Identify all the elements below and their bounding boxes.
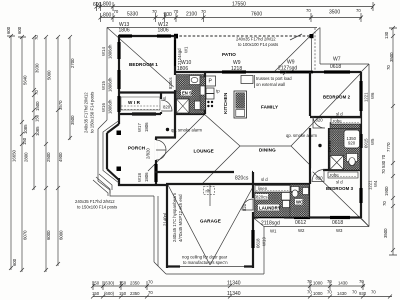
wc basin <box>303 188 309 195</box>
svg-text:70: 70 <box>306 8 311 13</box>
svg-text:70: 70 <box>307 290 312 295</box>
svg-text:3930: 3930 <box>35 63 40 73</box>
lounge hip diagonal <box>148 114 205 171</box>
svg-text:1085: 1085 <box>23 124 28 134</box>
eave porch north chamfer <box>98 120 107 129</box>
ensuite vanity line <box>193 100 204 102</box>
bottom ticks B <box>91 295 392 299</box>
svg-text:0915: 0915 <box>364 138 369 148</box>
wall main north <box>175 71 361 73</box>
svg-text:W19: W19 <box>262 237 267 246</box>
garage-house door arc <box>242 199 253 210</box>
label 820cs laundry <box>256 194 269 200</box>
svg-text:900: 900 <box>164 12 173 18</box>
svg-text:GARAGE: GARAGE <box>200 219 221 224</box>
svg-text:sl d: sl d <box>261 177 268 182</box>
svg-text:linen: linen <box>258 186 268 191</box>
garage door gap <box>180 265 244 269</box>
garage ridge stub <box>209 185 211 206</box>
window W13 bar <box>119 34 132 37</box>
hip SE corner connector <box>361 218 369 227</box>
svg-text:820: 820 <box>316 118 324 123</box>
wall bedroom1 north <box>118 35 175 37</box>
porch step line 2 <box>96 177 110 194</box>
tick <box>95 2 376 11</box>
island dishwasher <box>236 110 245 117</box>
svg-text:2140pl: 2140pl <box>163 213 168 226</box>
svg-text:W I R: W I R <box>128 100 141 105</box>
window W15 bar <box>117 70 120 89</box>
wc toilet <box>291 187 299 198</box>
patio hip diagonal <box>274 35 311 72</box>
garage diagonal right <box>210 185 254 265</box>
svg-text:2124sgd: 2124sgd <box>177 48 182 65</box>
porch step line 1 <box>99 174 112 190</box>
WIR shelves dashed <box>121 106 160 110</box>
porch wall chamfer south <box>107 169 119 180</box>
sgd 2118 bar <box>258 216 284 218</box>
svg-text:820: 820 <box>242 203 247 211</box>
entry double door arcs <box>156 140 166 160</box>
svg-text:150: 150 <box>92 281 100 286</box>
window W19 bar <box>251 230 254 248</box>
oven box 1 <box>206 88 214 94</box>
svg-text:11340: 11340 <box>227 291 241 297</box>
porch step line 3 <box>93 180 108 196</box>
hip garage notch connector <box>253 218 264 227</box>
window W12 bar <box>157 34 171 37</box>
wall entry south <box>118 184 167 186</box>
bed2 robe shelf <box>331 118 361 124</box>
ensuite door swing <box>175 90 183 96</box>
svg-text:WC: WC <box>296 200 303 205</box>
wall garage north <box>166 183 254 185</box>
dim line second row <box>101 17 363 19</box>
note leader patio <box>290 34 302 40</box>
svg-text:5000: 5000 <box>47 70 52 80</box>
svg-text:1806dh: 1806dh <box>108 77 113 92</box>
svg-text:820: 820 <box>316 176 324 181</box>
dim line L6 partial <box>69 37 71 140</box>
wall bed2 south <box>310 116 361 118</box>
hip to bed3 corner <box>291 146 310 165</box>
pantry box <box>206 76 216 86</box>
label EN S <box>181 90 192 96</box>
svg-text:1806: 1806 <box>119 28 130 34</box>
svg-text:to manufacturers spec'n: to manufacturers spec'n <box>183 260 228 265</box>
patio east dashed line <box>314 28 316 72</box>
svg-text:1430: 1430 <box>337 291 347 296</box>
svg-text:3500: 3500 <box>389 52 394 62</box>
svg-text:150: 150 <box>35 114 40 122</box>
svg-text:3500: 3500 <box>383 228 388 238</box>
left ticks mid <box>20 88 72 190</box>
wall WIR south <box>119 113 161 115</box>
svg-text:150: 150 <box>22 137 27 145</box>
wall entry east (W18 wall) <box>155 138 157 187</box>
svg-text:BEDROOM 1: BEDROOM 1 <box>129 62 158 67</box>
fridge <box>241 76 253 84</box>
wall laundry north <box>253 183 310 185</box>
bedroom3 diagonal <box>310 169 369 227</box>
smoke alarm dot family <box>318 144 321 147</box>
svg-text:7770: 7770 <box>386 142 391 152</box>
svg-text:sl d: sl d <box>336 112 343 117</box>
svg-text:1806dh: 1806dh <box>108 44 113 59</box>
svg-text:70: 70 <box>371 290 376 295</box>
svg-text:70: 70 <box>34 90 39 95</box>
wall bed3 north <box>310 169 361 171</box>
svg-text:800: 800 <box>103 13 112 19</box>
eave patio east edge <box>319 28 321 65</box>
svg-text:4900: 4900 <box>58 152 63 162</box>
svg-text:70 530 70: 70 530 70 <box>381 154 386 174</box>
svg-text:70: 70 <box>152 9 157 14</box>
cooktop burners <box>207 101 213 107</box>
note leader trusses <box>283 72 286 75</box>
svg-text:1000: 1000 <box>313 291 323 296</box>
svg-text:BEDROOM 2: BEDROOM 2 <box>323 95 351 100</box>
svg-text:1221: 1221 <box>368 180 373 190</box>
svg-text:70: 70 <box>352 290 357 295</box>
svg-text:to 150x150 F14 posts: to 150x150 F14 posts <box>90 92 95 133</box>
svg-text:2700: 2700 <box>70 58 75 68</box>
svg-text:5330: 5330 <box>127 12 138 18</box>
laundry washer <box>283 201 290 208</box>
wc tiled floor <box>290 185 309 218</box>
svg-text:1806: 1806 <box>158 28 169 34</box>
wall ensuite/kitchen divider <box>204 72 206 114</box>
svg-text:(630): (630) <box>104 281 115 286</box>
wall east exterior <box>360 72 362 218</box>
bed3 robe shelf <box>328 172 358 178</box>
patio post 1 <box>174 34 178 39</box>
svg-text:BATH: BATH <box>327 141 332 152</box>
svg-text:2100: 2100 <box>186 12 197 18</box>
WIR-ensuite door arc <box>161 100 172 111</box>
hip to garage corner <box>202 146 240 184</box>
svg-text:70: 70 <box>114 9 119 14</box>
wall garage south <box>167 265 254 267</box>
porch beam inner line <box>103 121 119 184</box>
dim line L1 <box>10 36 12 270</box>
svg-text:2127sgd: 2127sgd <box>278 65 297 71</box>
svg-text:70: 70 <box>386 65 391 70</box>
window W5 bar <box>359 134 362 148</box>
svg-text:3500: 3500 <box>70 115 75 125</box>
ensuite shower <box>177 99 190 113</box>
wall bed2 west <box>309 72 311 116</box>
wall garage west <box>166 184 168 268</box>
garage diagonal left <box>168 185 210 265</box>
svg-text:16650: 16650 <box>12 149 17 162</box>
sgd 2124 gap in bed1 east wall <box>174 40 177 66</box>
svg-text:1085: 1085 <box>35 126 40 136</box>
svg-text:1218: 1218 <box>231 66 242 72</box>
svg-text:5640: 5640 <box>23 75 28 85</box>
svg-text:1806: 1806 <box>144 172 149 182</box>
svg-text:FAMILY: FAMILY <box>261 105 278 110</box>
entry door gap <box>155 140 158 160</box>
eave south edge right <box>264 226 369 228</box>
bath tub <box>344 130 360 148</box>
svg-text:1806dh: 1806dh <box>108 99 113 114</box>
window W17 bar (WIR south wall) <box>132 112 156 115</box>
svg-text:W16: W16 <box>101 103 106 112</box>
bath wc <box>347 154 358 166</box>
kitchen island outline <box>234 91 247 118</box>
left ticks top <box>7 34 72 39</box>
window W4 bar <box>359 188 362 203</box>
wall hall west (bath) <box>309 128 311 184</box>
svg-text:BEDROOM 3: BEDROOM 3 <box>326 186 354 191</box>
window 0612 bar <box>294 216 310 219</box>
svg-text:rlh: rlh <box>206 188 211 193</box>
window W9 1218 bar <box>222 70 246 73</box>
bed3 door arc <box>312 170 324 182</box>
svg-text:W4: W4 <box>373 180 378 187</box>
svg-text:920: 920 <box>348 141 356 146</box>
svg-text:1221: 1221 <box>364 92 369 102</box>
svg-text:70: 70 <box>327 290 332 295</box>
window W16 bar <box>117 96 120 112</box>
svg-text:sl: sl <box>163 96 166 101</box>
svg-text:to 100x100 F14 posts: to 100x100 F14 posts <box>238 42 278 47</box>
bed2 door arc <box>313 116 325 128</box>
svg-text:600: 600 <box>93 2 102 8</box>
svg-text:1900: 1900 <box>384 186 389 196</box>
svg-text:(600): (600) <box>104 291 115 296</box>
wall west (left exterior) <box>118 36 120 124</box>
svg-text:930: 930 <box>359 291 367 296</box>
eave NE segment <box>320 63 369 65</box>
right ticks <box>389 26 397 255</box>
dim line L5 <box>57 37 59 266</box>
smoke alarm dot lounge <box>166 128 169 131</box>
wall west lower <box>118 178 120 186</box>
window W18 bar <box>154 164 157 182</box>
svg-text:1806: 1806 <box>177 66 188 72</box>
kitchen bench hatch strip <box>200 77 206 110</box>
sgd 2124 bar <box>174 40 176 66</box>
hip NW long diagonal through bedroom1 and dining <box>107 28 240 147</box>
dim line bottom B <box>93 296 392 298</box>
ticks row2 <box>99 13 364 22</box>
svg-text:0612: 0612 <box>295 220 306 226</box>
laundry tiled floor <box>254 193 290 218</box>
svg-text:EN S: EN S <box>182 91 192 96</box>
svg-text:0618: 0618 <box>332 220 343 226</box>
svg-text:70: 70 <box>148 280 153 285</box>
window W7 0618 bar <box>324 70 350 73</box>
svg-text:0618: 0618 <box>256 238 261 248</box>
svg-text:150: 150 <box>119 281 127 286</box>
svg-text:KITCHEN: KITCHEN <box>223 92 229 114</box>
dim line right <box>392 28 394 255</box>
svg-text:W15: W15 <box>101 81 106 90</box>
svg-text:W3: W3 <box>336 228 343 233</box>
svg-text:6000: 6000 <box>46 230 51 240</box>
wall WIR east <box>160 93 162 115</box>
svg-text:820cs: 820cs <box>168 78 173 89</box>
svg-text:1430: 1430 <box>338 281 348 286</box>
svg-text:70: 70 <box>34 35 39 40</box>
ceiling ridge line <box>240 145 291 147</box>
hip NE corner connector <box>361 64 369 72</box>
wall bath west <box>328 128 330 170</box>
laundry tub <box>282 193 291 201</box>
svg-text:LAUNDRY: LAUNDRY <box>259 206 281 211</box>
eave garage east edge <box>263 227 265 275</box>
wall bed1 east / ensuite west <box>174 36 176 138</box>
svg-text:qp. smoke alarm: qp. smoke alarm <box>286 133 317 138</box>
svg-text:2118sgd: 2118sgd <box>261 221 280 227</box>
kitchen sink white <box>200 86 205 95</box>
wall south (laundry to bed3) <box>253 216 361 218</box>
svg-text:820: 820 <box>163 105 171 110</box>
svg-text:W14: W14 <box>101 47 106 56</box>
ensuite tiled floor <box>176 75 204 114</box>
svg-text:PATIO: PATIO <box>222 52 236 57</box>
eave west edge <box>106 28 108 121</box>
left ticks bottom <box>9 262 60 272</box>
svg-text:robe: robe <box>333 119 342 124</box>
door 2127sgd bar <box>280 71 313 74</box>
eave patio corner connector <box>311 28 320 36</box>
svg-text:70: 70 <box>307 279 312 284</box>
svg-text:4/70x45 MGP12 ech end: 4/70x45 MGP12 ech end <box>178 194 183 242</box>
svg-text:240x35 F17hd 2/M12: 240x35 F17hd 2/M12 <box>84 92 89 133</box>
dim line bottom A <box>93 285 365 287</box>
svg-text:17550: 17550 <box>232 2 246 8</box>
svg-text:W5: W5 <box>370 138 375 145</box>
eave north edge <box>107 27 317 29</box>
eave porch west edge <box>97 129 99 181</box>
ensuite basin <box>195 101 202 110</box>
patio east thin edge <box>311 35 313 72</box>
porch post bottom <box>117 167 122 172</box>
garage door sill line <box>180 266 244 268</box>
garage-laundry door gap <box>252 198 255 212</box>
bath vanity strip <box>330 123 360 129</box>
eave south-west segment <box>110 190 154 196</box>
WIR bench outline <box>121 97 160 110</box>
WIR east door gap <box>160 99 163 112</box>
svg-text:600: 600 <box>17 26 22 34</box>
svg-text:W17: W17 <box>137 123 142 132</box>
svg-text:W1: W1 <box>184 46 189 53</box>
svg-text:3570: 3570 <box>58 100 63 110</box>
patio beam dashed <box>175 35 311 37</box>
svg-text:PORCH: PORCH <box>128 146 146 151</box>
window W6 bar <box>359 81 362 111</box>
opening 820cs in south wall <box>234 170 252 173</box>
wall bed1/WIR divider <box>119 91 175 93</box>
linen shelf <box>255 186 290 193</box>
eave garage west edge <box>153 196 155 262</box>
svg-text:70: 70 <box>382 201 387 206</box>
porch post top <box>117 131 122 136</box>
eave porch south chamfer <box>98 181 110 190</box>
svg-text:150: 150 <box>92 291 100 296</box>
svg-text:3500: 3500 <box>329 10 340 16</box>
label WC <box>295 199 303 205</box>
bottom ticks A <box>91 281 365 290</box>
svg-text:W18: W18 <box>137 173 142 182</box>
svg-text:1806: 1806 <box>144 122 149 132</box>
svg-text:0618: 0618 <box>330 64 341 70</box>
patio NE post <box>310 34 314 38</box>
kitchen island hatch <box>236 93 245 109</box>
window 0618 W3 bar <box>330 216 350 219</box>
sgd 2118 gap <box>258 216 284 219</box>
svg-text:W6: W6 <box>370 92 375 99</box>
svg-text:70: 70 <box>359 279 364 284</box>
window W14 bar <box>117 42 120 59</box>
svg-text:qp. smoke alarm: qp. smoke alarm <box>171 128 202 133</box>
svg-text:800: 800 <box>103 2 112 8</box>
svg-text:W1: W1 <box>270 229 277 234</box>
svg-text:820cs: 820cs <box>235 176 249 182</box>
garage slab west edge <box>157 196 159 266</box>
svg-text:2500: 2500 <box>46 152 51 162</box>
wall lounge/dining south <box>155 171 253 173</box>
svg-text:sl d: sl d <box>336 180 343 185</box>
svg-text:130: 130 <box>384 31 389 39</box>
svg-text:W7: W7 <box>333 57 341 63</box>
svg-text:2350: 2350 <box>130 291 140 296</box>
svg-text:trusses to port load: trusses to port load <box>256 76 292 81</box>
svg-text:2/820: 2/820 <box>146 148 151 159</box>
svg-text:7600: 7600 <box>251 12 262 18</box>
dim line L2 <box>21 37 23 272</box>
svg-text:600: 600 <box>6 26 11 34</box>
ensuite toilet <box>190 76 201 85</box>
svg-text:70: 70 <box>356 8 361 13</box>
svg-text:150: 150 <box>119 291 127 296</box>
svg-text:820cs: 820cs <box>256 195 267 200</box>
wall hall north <box>155 136 176 138</box>
room LAUNDRY <box>258 205 279 211</box>
svg-text:DINING: DINING <box>259 148 276 153</box>
svg-text:240x45 17C hyspanbeam: 240x45 17C hyspanbeam <box>172 193 177 242</box>
svg-text:robe: robe <box>330 173 339 178</box>
hip NE diagonal through bedroom 2 <box>291 73 361 146</box>
dim line L3 <box>33 37 35 190</box>
svg-text:W2: W2 <box>298 228 305 233</box>
svg-text:240x35 F17hd 2/M12: 240x35 F17hd 2/M12 <box>236 37 276 42</box>
dim line overall 17550 <box>97 6 374 8</box>
svg-text:1000: 1000 <box>313 281 323 286</box>
eave garage SW chamfer <box>154 262 166 274</box>
svg-text:70: 70 <box>148 290 153 295</box>
bed3 door gap <box>311 168 323 171</box>
svg-text:6070: 6070 <box>23 230 28 240</box>
oven box 2 <box>206 94 214 100</box>
svg-text:600: 600 <box>12 258 17 266</box>
svg-text:LOUNGE: LOUNGE <box>194 149 214 154</box>
eave garage south edge <box>166 273 264 275</box>
wall ensuite south <box>175 113 205 115</box>
svg-text:nog ceiling for door gear: nog ceiling for door gear <box>182 255 228 260</box>
porch wall west <box>106 133 108 169</box>
svg-text:2800: 2800 <box>24 152 29 162</box>
svg-text:to 150x100 F14 posts: to 150x100 F14 posts <box>77 205 117 210</box>
svg-text:240x35 F17hd 2/M12: 240x35 F17hd 2/M12 <box>75 199 115 204</box>
svg-text:2350: 2350 <box>130 281 140 286</box>
svg-text:70: 70 <box>201 9 206 14</box>
opening 820cs bed1 east wall <box>174 75 177 90</box>
